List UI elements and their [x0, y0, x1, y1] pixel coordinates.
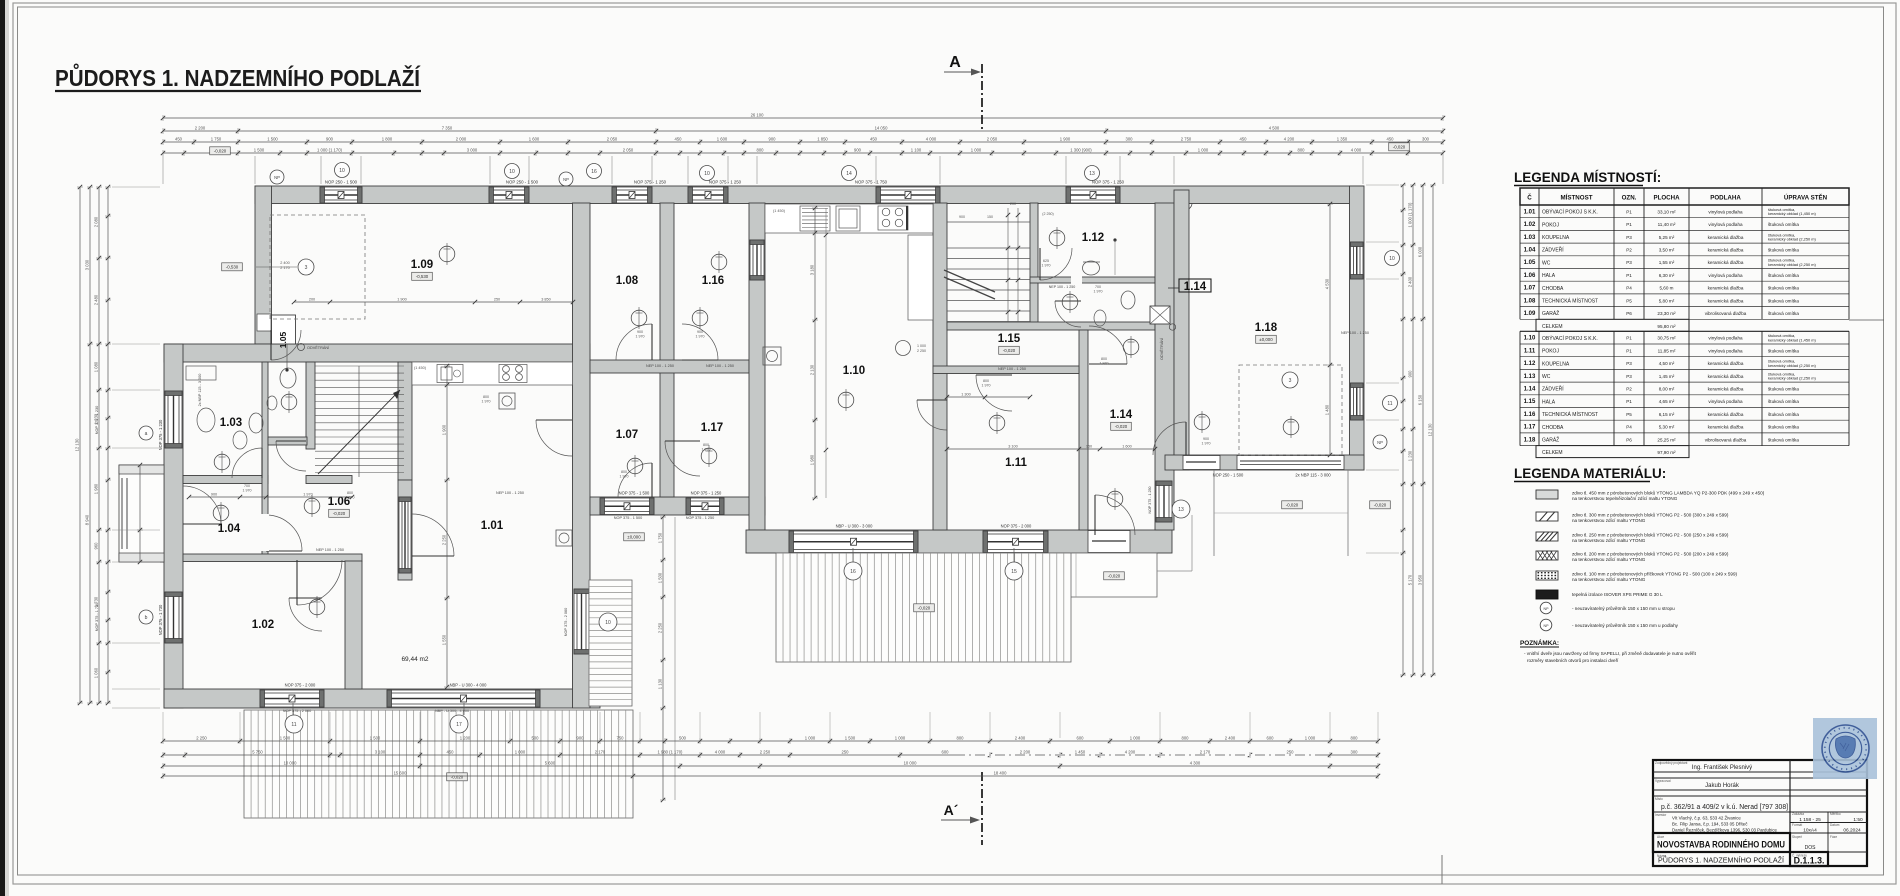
- svg-text:P1: P1: [1626, 209, 1632, 214]
- svg-text:keramický obklad (2,250 m): keramický obklad (2,250 m): [1768, 262, 1816, 267]
- svg-text:1 970: 1 970: [696, 335, 705, 339]
- svg-text:POZNÁMKA:: POZNÁMKA:: [1520, 638, 1559, 647]
- svg-text:1 980 (1 170): 1 980 (1 170): [658, 749, 684, 754]
- svg-text:900: 900: [211, 492, 217, 496]
- svg-text:450: 450: [870, 136, 878, 141]
- fixture circles: [631, 310, 647, 326]
- svg-text:11,40 m²: 11,40 m²: [1658, 222, 1676, 227]
- stairs unit B: [947, 247, 1030, 249]
- svg-text:1 970: 1 970: [620, 475, 629, 479]
- svg-text:14: 14: [846, 171, 852, 177]
- svg-text:1.03: 1.03: [1524, 235, 1536, 241]
- svg-text:LEGENDA MATERIÁLU:: LEGENDA MATERIÁLU:: [1514, 466, 1666, 481]
- svg-text:3 180: 3 180: [810, 264, 815, 275]
- svg-text:ODVĚTRÁNÍ: ODVĚTRÁNÍ: [1159, 337, 1164, 360]
- dim line in 1.09: [294, 301, 573, 303]
- svg-text:vinylová podlaha: vinylová podlaha: [1708, 348, 1743, 353]
- terrace left circle 11: [292, 703, 294, 715]
- dim line 1.18 vertical: [1329, 204, 1331, 455]
- svg-text:keramická dlažba: keramická dlažba: [1708, 286, 1744, 291]
- svg-text:MÍSTNOST: MÍSTNOST: [1561, 194, 1593, 202]
- svg-text:- neuzavíratelný průvětrník 15: - neuzavíratelný průvětrník 150 x 150 mm…: [1572, 622, 1679, 628]
- svg-text:1.12: 1.12: [1082, 232, 1104, 244]
- svg-text:štuková omítka: štuková omítka: [1768, 348, 1799, 353]
- title block: [1653, 760, 1867, 866]
- svg-text:2 480: 2 480: [94, 294, 99, 305]
- svg-text:vibrolisovaná dlažba: vibrolisovaná dlažba: [1705, 311, 1747, 316]
- svg-text:2 250: 2 250: [196, 735, 207, 740]
- svg-text:na tenkovrstvou zdící maltu YT: na tenkovrstvou zdící maltu YTONG: [1572, 518, 1646, 523]
- svg-text:P1: P1: [1626, 222, 1632, 227]
- svg-text:P3: P3: [1626, 235, 1632, 240]
- door 1.07 bottom: [618, 463, 652, 497]
- svg-text:800: 800: [703, 443, 709, 447]
- stamp blue: [1813, 718, 1877, 779]
- svg-text:2 250: 2 250: [658, 622, 663, 633]
- vent circle odvetrani A: [298, 344, 305, 351]
- wall between stairs B and 1.12: [1030, 203, 1038, 322]
- door garage 1.18: [1153, 422, 1186, 455]
- window top wall W6 above 1.12: [1066, 187, 1120, 203]
- niche in left wall: [257, 314, 271, 331]
- stove unit A: [499, 365, 527, 383]
- svg-text:PŮDORYS 1. NADZEMNÍHO PODLAŽÍ: PŮDORYS 1. NADZEMNÍHO PODLAŽÍ: [1658, 856, 1785, 865]
- svg-text:-0,020: -0,020: [1286, 503, 1299, 508]
- svg-text:1.13: 1.13: [1524, 374, 1536, 380]
- svg-text:štuková omítka: štuková omítka: [1768, 412, 1799, 417]
- page left dark scan edge: [0, 0, 5, 896]
- svg-text:5,25 m²: 5,25 m²: [1659, 235, 1675, 240]
- svg-text:štuková omítka: štuková omítka: [1768, 437, 1799, 442]
- svg-text:keramická dlažba: keramická dlažba: [1708, 386, 1744, 391]
- dim line 1.04 horizontal: [189, 496, 352, 498]
- top dimension extension lines: [162, 156, 164, 184]
- svg-text:1 970: 1 970: [1202, 442, 1211, 446]
- svg-text:1 970: 1 970: [303, 492, 313, 496]
- svg-text:900: 900: [637, 330, 643, 334]
- svg-text:GARÁŽ: GARÁŽ: [1542, 435, 1559, 443]
- svg-text:1.16: 1.16: [1524, 412, 1536, 418]
- svg-text:na tenkovrstvou zdící maltu YT: na tenkovrstvou zdící maltu YTONG: [1572, 577, 1646, 582]
- svg-text:10: 10: [509, 169, 515, 175]
- svg-text:1 500: 1 500: [658, 572, 663, 583]
- svg-text:NOP 250 - 1 500: NOP 250 - 1 500: [325, 180, 358, 185]
- svg-text:1 980: 1 980: [94, 483, 99, 494]
- svg-text:NOP 375 - 1 250: NOP 375 - 1 250: [1148, 487, 1152, 514]
- svg-text:4 530: 4 530: [1325, 278, 1330, 289]
- door 1.11: [917, 400, 947, 430]
- svg-text:NEP 100 - 1 250: NEP 100 - 1 250: [998, 367, 1026, 371]
- wall below stairs B and WC: [947, 322, 1155, 330]
- left dim chain 4: [107, 187, 109, 703]
- svg-text:1.10: 1.10: [843, 365, 865, 377]
- svg-text:10 000: 10 000: [284, 760, 297, 765]
- svg-text:NOP 375 - 2 000: NOP 375 - 2 000: [1001, 524, 1032, 529]
- svg-text:1 000: 1 000: [971, 147, 982, 152]
- svg-text:800: 800: [957, 735, 965, 740]
- wall between WC 1.05 and stairs A: [306, 362, 315, 449]
- svg-text:1 100: 1 100: [911, 147, 922, 152]
- door 1.12: [1040, 248, 1072, 280]
- svg-text:3 000: 3 000: [467, 147, 478, 152]
- chimney block unit B: [1150, 306, 1170, 324]
- svg-text:-0,020: -0,020: [1003, 348, 1016, 353]
- bottom dim row2: [163, 754, 1378, 756]
- svg-text:zdivo tl. 100 mm z pórobetonov: zdivo tl. 100 mm z pórobetonových příčko…: [1572, 572, 1738, 577]
- right dim chain 1: [1402, 185, 1404, 675]
- bottom dim row3: [163, 765, 1378, 767]
- walkway edge lines unit B: [1191, 515, 1193, 571]
- svg-text:NOP 375 - 1 250: NOP 375 - 1 250: [691, 491, 722, 496]
- svg-text:NP: NP: [1377, 440, 1383, 445]
- svg-text:CHODBA: CHODBA: [1542, 425, 1564, 431]
- svg-text:1.08: 1.08: [616, 275, 639, 287]
- svg-text:1 600: 1 600: [717, 136, 728, 141]
- svg-text:P5: P5: [1626, 298, 1632, 303]
- svg-text:800: 800: [347, 491, 353, 495]
- svg-text:1 000 (1 170): 1 000 (1 170): [317, 147, 343, 152]
- svg-text:Měřítko: Měřítko: [1830, 812, 1841, 816]
- svg-text:1 300: 1 300: [961, 392, 971, 396]
- svg-text:NOP 375 - 1 230: NOP 375 - 1 230: [158, 419, 163, 450]
- svg-text:NP: NP: [563, 177, 569, 182]
- svg-text:ZÁDVEŘÍ: ZÁDVEŘÍ: [1542, 385, 1564, 393]
- svg-text:1.18: 1.18: [1524, 437, 1536, 443]
- right dim chain 4: [1432, 185, 1434, 675]
- svg-text:250: 250: [842, 749, 850, 754]
- svg-text:4 500: 4 500: [1269, 125, 1280, 130]
- svg-text:1.05: 1.05: [278, 331, 288, 348]
- svg-text:900: 900: [769, 136, 777, 141]
- svg-text:GARÁŽ: GARÁŽ: [1542, 309, 1559, 317]
- svg-text:NEP 100 - 1 250: NEP 100 - 1 250: [316, 548, 344, 552]
- svg-text:1 550: 1 550: [442, 634, 447, 645]
- exterior wall top: [255, 186, 1363, 204]
- svg-text:štuková omítka: štuková omítka: [1768, 311, 1799, 316]
- svg-text:NP: NP: [1544, 607, 1550, 611]
- door 1.06 to 1.02: [297, 560, 342, 605]
- dimension chain top row4: [163, 152, 1443, 154]
- legend rooms table: [1520, 188, 1849, 205]
- NP circle right: [1373, 435, 1387, 449]
- terrace left hatch: [244, 710, 633, 818]
- svg-text:P6: P6: [1626, 311, 1632, 316]
- svg-text:1.10: 1.10: [1524, 336, 1536, 342]
- svg-text:1 980: 1 980: [810, 454, 815, 465]
- door 1.16: [682, 324, 718, 360]
- svg-text:-0,020: -0,020: [451, 775, 464, 780]
- svg-text:keramická dlažba: keramická dlažba: [1708, 374, 1744, 379]
- svg-text:NEP 100 - 1 250: NEP 100 - 1 250: [1341, 331, 1369, 335]
- exterior wall left: [164, 344, 183, 708]
- svg-text:zdivo tl. 300 mm z pórobetonov: zdivo tl. 300 mm z pórobetonových bloků …: [1572, 512, 1729, 518]
- svg-text:800: 800: [1298, 147, 1306, 152]
- left bay dim chain: [139, 465, 141, 562]
- svg-text:2 170: 2 170: [595, 749, 606, 754]
- svg-text:1 000 (1 170): 1 000 (1 170): [1408, 202, 1413, 228]
- garage door opening 1.18: [1237, 456, 1344, 470]
- svg-text:10: 10: [1389, 256, 1395, 262]
- svg-text:P4: P4: [1626, 286, 1632, 291]
- svg-text:1.17: 1.17: [701, 422, 723, 434]
- wall band between 1.08-1.16 and 1.07-1.17: [590, 360, 749, 373]
- svg-text:15: 15: [1011, 569, 1017, 575]
- svg-text:1 230: 1 230: [1408, 450, 1413, 461]
- svg-text:11: 11: [291, 722, 296, 728]
- svg-text:1 230: 1 230: [94, 413, 99, 424]
- svg-text:ODVĚTRÁNÍ: ODVĚTRÁNÍ: [307, 345, 330, 350]
- svg-text:NBP - U 300 - 4 000: NBP - U 300 - 4 000: [450, 683, 488, 688]
- svg-text:10: 10: [704, 171, 710, 177]
- svg-text:800: 800: [483, 395, 489, 399]
- svg-text:1 900: 1 900: [397, 297, 407, 301]
- svg-text:Bc. Filip Jansa, č.p. 194, 533: Bc. Filip Jansa, č.p. 194, 533 05 Dříteč: [1672, 822, 1748, 827]
- svg-text:625: 625: [1043, 259, 1049, 263]
- svg-text:tepelná izolace ISOVER XPS PRI: tepelná izolace ISOVER XPS PRIME G 30 L: [1572, 592, 1663, 597]
- svg-text:HALA: HALA: [1542, 399, 1556, 405]
- svg-text:600: 600: [1267, 735, 1275, 740]
- svg-text:PŮDORYS 1. NADZEMNÍHO PODLAŽÍ: PŮDORYS 1. NADZEMNÍHO PODLAŽÍ: [55, 62, 421, 91]
- svg-text:vinylová podlaha: vinylová podlaha: [1708, 209, 1743, 214]
- svg-text:1.15: 1.15: [1524, 399, 1536, 405]
- svg-text:p.č. 362/91 a 409/2 v k.ú. Ner: p.č. 362/91 a 409/2 v k.ú. Nerad [797 30…: [1661, 802, 1788, 811]
- svg-text:CHODBA: CHODBA: [1542, 286, 1564, 292]
- svg-text:1 730: 1 730: [94, 596, 99, 607]
- svg-text:ÚPRAVA STĚN: ÚPRAVA STĚN: [1784, 194, 1828, 202]
- wall right of 1.03 column: [262, 362, 268, 555]
- svg-text:vinylová podlaha: vinylová podlaha: [1708, 273, 1743, 278]
- wall right of stairs A / hall 1.06: [398, 362, 412, 480]
- door 1.06 to 1.01: [412, 514, 454, 556]
- svg-text:-0,020: -0,020: [1393, 145, 1406, 150]
- svg-text:NOP 375 - 1 730: NOP 375 - 1 730: [158, 604, 163, 635]
- svg-text:-0,020: -0,020: [1115, 424, 1128, 429]
- svg-text:14 050: 14 050: [875, 125, 888, 130]
- svg-text:1 000: 1 000: [1198, 147, 1209, 152]
- svg-text:1 000: 1 000: [1305, 735, 1316, 740]
- kitchen counter unit A: [412, 362, 573, 385]
- svg-text:1.04: 1.04: [218, 523, 241, 535]
- wc 1.05 door: [276, 441, 306, 471]
- svg-text:ZÁDVEŘÍ: ZÁDVEŘÍ: [1542, 246, 1564, 254]
- svg-text:1.09: 1.09: [1524, 311, 1536, 317]
- svg-text:1.14: 1.14: [1110, 409, 1133, 421]
- svg-text:štuková omítka: štuková omítka: [1768, 222, 1799, 227]
- svg-text:NOP 375 - 1 250: NOP 375 - 1 250: [634, 180, 667, 185]
- svg-text:450: 450: [175, 136, 183, 141]
- svg-text:LEGENDA MÍSTNOSTÍ:: LEGENDA MÍSTNOSTÍ:: [1514, 170, 1661, 185]
- dim line in 1.01 vertical: [446, 366, 448, 687]
- svg-text:10xA4: 10xA4: [1803, 828, 1817, 834]
- svg-text:3 100: 3 100: [375, 749, 386, 754]
- svg-text:štuková omítka: štuková omítka: [1768, 298, 1799, 303]
- svg-text:NEP 100 - 1 250: NEP 100 - 1 250: [1049, 285, 1076, 289]
- svg-text:1 970: 1 970: [1100, 362, 1109, 366]
- svg-text:3: 3: [305, 265, 308, 271]
- svg-text:štuková omítka: štuková omítka: [1768, 286, 1799, 291]
- svg-text:1.02: 1.02: [1524, 222, 1536, 228]
- bath 1.12 fixtures: [1083, 261, 1100, 275]
- floor drain 1.01: [556, 530, 572, 546]
- garage entry door gap 1.18: [1183, 456, 1220, 470]
- svg-text:6 150: 6 150: [1418, 394, 1423, 405]
- svg-text:1 000: 1 000: [805, 735, 816, 740]
- svg-text:450: 450: [1387, 136, 1395, 141]
- svg-text:NOP 375 - 2 000: NOP 375 - 2 000: [285, 683, 316, 688]
- door 1.01 to corridor: [536, 420, 572, 456]
- svg-text:2 000: 2 000: [456, 136, 467, 141]
- svg-text:1.07: 1.07: [616, 429, 638, 441]
- svg-text:1.15: 1.15: [998, 333, 1021, 345]
- svg-text:200: 200: [1010, 202, 1016, 206]
- svg-text:keramická dlažba: keramická dlažba: [1708, 260, 1744, 265]
- svg-text:700: 700: [244, 484, 250, 488]
- svg-text:(1 450): (1 450): [414, 366, 427, 370]
- svg-text:-0,020: -0,020: [214, 149, 227, 154]
- svg-text:keramická dlažba: keramická dlažba: [1708, 425, 1744, 430]
- svg-text:600: 600: [1077, 735, 1085, 740]
- party wall between units: [749, 203, 765, 530]
- svg-text:25,25 m²: 25,25 m²: [1657, 437, 1676, 442]
- svg-text:7 350: 7 350: [442, 125, 453, 130]
- material swatch 4: [1536, 551, 1558, 560]
- svg-text:zdivo tl. 450 mm z pórobetonov: zdivo tl. 450 mm z pórobetonových bloků …: [1572, 490, 1765, 496]
- svg-text:Jakub Horák: Jakub Horák: [1705, 783, 1740, 789]
- svg-text:Místo: Místo: [1655, 797, 1663, 801]
- left dim chain 3: [98, 187, 100, 703]
- svg-text:3 100: 3 100: [1008, 444, 1018, 448]
- svg-text:keramická dlažba: keramická dlažba: [1708, 235, 1744, 240]
- wc 1.05 bottom wall: [268, 437, 307, 445]
- material swatch 2: [1536, 512, 1558, 521]
- svg-text:vinylová podlaha: vinylová podlaha: [1708, 222, 1743, 227]
- room label 1.14 boxed: [1179, 279, 1211, 292]
- svg-text:23,30 m²: 23,30 m²: [1657, 311, 1676, 316]
- svg-text:10: 10: [339, 168, 345, 174]
- svg-text:1 750: 1 750: [658, 532, 663, 543]
- svg-text:keramický obklad (2,250 m): keramický obklad (2,250 m): [1768, 375, 1816, 380]
- stove unit B: [878, 206, 908, 230]
- svg-text:vinylová podlaha: vinylová podlaha: [1708, 336, 1743, 341]
- svg-text:P3: P3: [1626, 361, 1632, 366]
- door 1.03: [232, 448, 262, 478]
- door 1.06 west: [266, 515, 302, 551]
- svg-text:1.18: 1.18: [1255, 322, 1278, 334]
- svg-text:WC: WC: [1542, 374, 1551, 380]
- svg-text:TECHNICKÁ MÍSTNOST: TECHNICKÁ MÍSTNOST: [1542, 297, 1598, 304]
- svg-text:11: 11: [1387, 401, 1392, 407]
- svg-text:6,15 m²: 6,15 m²: [1659, 412, 1675, 417]
- wc B fixtures: [1121, 291, 1135, 309]
- dim circle 1.10: [896, 341, 911, 356]
- svg-text:10 000: 10 000: [904, 760, 917, 765]
- door wc B: [1055, 301, 1081, 327]
- svg-text:zdivo tl. 250 mm z pórobetonov: zdivo tl. 250 mm z pórobetonových bloků …: [1572, 532, 1729, 538]
- dim line stoop A vertical: [662, 517, 664, 800]
- svg-text:(2 250): (2 250): [1042, 212, 1053, 216]
- svg-text:8 940: 8 940: [85, 514, 90, 525]
- window top wall W4: [688, 187, 728, 203]
- right dim chain 3: [1422, 185, 1424, 675]
- svg-text:900: 900: [1203, 437, 1209, 441]
- svg-text:6,30 m²: 6,30 m²: [1659, 273, 1675, 278]
- window left wall W8: [165, 592, 182, 643]
- svg-text:keramický obklad (2,250 m): keramický obklad (2,250 m): [1768, 236, 1816, 241]
- svg-text:1 000: 1 000: [895, 735, 906, 740]
- svg-text:2 200: 2 200: [1020, 749, 1031, 754]
- svg-text:10: 10: [605, 620, 611, 626]
- stairs unit A: [315, 365, 404, 367]
- svg-text:5,80 m²: 5,80 m²: [1659, 298, 1675, 303]
- svg-text:na tenkovrstvou zdící maltu YT: na tenkovrstvou zdící maltu YTONG: [1572, 538, 1646, 543]
- kitchen B cabinet run: [908, 235, 933, 320]
- svg-text:1 500: 1 500: [267, 136, 278, 141]
- fold mark bottom: [1441, 855, 1443, 884]
- garage 1.18 right wall / exterior east: [1350, 186, 1365, 470]
- svg-text:- neuzavíratelný průvětrník 15: - neuzavíratelný průvětrník 150 x 150 mm…: [1572, 605, 1675, 611]
- garage 1.18 left wall: [1174, 190, 1189, 470]
- svg-text:1.11: 1.11: [1524, 348, 1536, 354]
- svg-text:OBÝVACÍ POKOJ S K.K.: OBÝVACÍ POKOJ S K.K.: [1542, 335, 1598, 342]
- svg-text:900: 900: [697, 330, 703, 334]
- svg-text:na tenkovrstvou tepelněizolačn: na tenkovrstvou tepelněizolační zdící ma…: [1572, 496, 1678, 501]
- corridor 1.07 bottom wall: [590, 497, 765, 515]
- svg-text:keramický obklad (1,450 m): keramický obklad (1,450 m): [1768, 211, 1816, 216]
- door 1.02 wall arc: [289, 598, 322, 631]
- door 1.04: [183, 486, 221, 524]
- unit B right wall: [1155, 203, 1174, 530]
- svg-text:26 100: 26 100: [751, 112, 764, 117]
- sliding door bottom A W12: [387, 690, 540, 707]
- svg-text:15 600: 15 600: [394, 770, 407, 775]
- svg-text:4 000: 4 000: [926, 136, 937, 141]
- svg-text:5,30 m²: 5,30 m²: [1659, 425, 1675, 430]
- svg-text:P6: P6: [1626, 437, 1632, 442]
- svg-text:13: 13: [1178, 507, 1184, 513]
- svg-text:keramický obklad (1,450 m): keramický obklad (1,450 m): [1768, 337, 1816, 342]
- svg-text:1 080: 1 080: [94, 361, 99, 372]
- svg-text:NOP 375 - 2 000: NOP 375 - 2 000: [283, 709, 311, 713]
- svg-text:-0,530: -0,530: [416, 274, 429, 279]
- svg-text:1.12: 1.12: [1524, 361, 1536, 367]
- svg-text:1 060: 1 060: [94, 667, 99, 678]
- svg-text:Vít Vlachý, č.p. 63, 533 42 Ži: Vít Vlachý, č.p. 63, 533 42 Živanice: [1672, 816, 1741, 821]
- stair break line B: [944, 270, 995, 292]
- svg-text:- vnitřní dveře jsou navrženy: - vnitřní dveře jsou navrženy od firmy S…: [1524, 651, 1697, 656]
- svg-text:vinylová podlaha: vinylová podlaha: [1708, 399, 1743, 404]
- window 1.17 bottom W14: [686, 498, 724, 515]
- dimension chain top total: [163, 117, 1443, 119]
- wall stub below WC 1.05: [306, 476, 352, 484]
- svg-text:6 000: 6 000: [1418, 246, 1423, 257]
- svg-text:1.14: 1.14: [1184, 281, 1207, 293]
- svg-text:1 970: 1 970: [1094, 290, 1103, 294]
- wall 1.06-1.01 lower with glazing: [398, 480, 412, 580]
- stoop circle 10: [599, 613, 617, 631]
- svg-text:17: 17: [456, 722, 462, 728]
- svg-text:-0,020: -0,020: [1108, 574, 1121, 579]
- svg-text:NOVOSTAVBA RODINNÉHO DOMU: NOVOSTAVBA RODINNÉHO DOMU: [1657, 840, 1785, 850]
- svg-text:4 300: 4 300: [1190, 760, 1201, 765]
- svg-text:1.14: 1.14: [1524, 386, 1536, 392]
- svg-text:1 600: 1 600: [1122, 444, 1132, 448]
- svg-text:CELKEM: CELKEM: [1542, 324, 1563, 330]
- svg-text:1.07: 1.07: [1524, 286, 1536, 292]
- bathroom 1.03 fixtures: [249, 413, 263, 433]
- wall between 1.15 and 1.11: [933, 366, 1079, 374]
- svg-text:Vypracoval: Vypracoval: [1655, 779, 1671, 783]
- svg-text:2 750: 2 750: [1181, 136, 1192, 141]
